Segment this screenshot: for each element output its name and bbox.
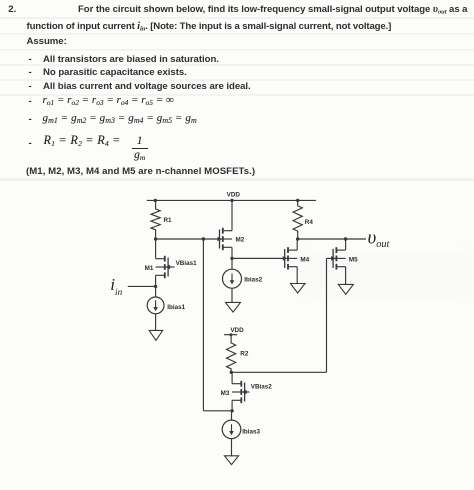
bullet 5: gm equation — [29, 114, 32, 125]
wire R2 node to M5 gate branch — [231, 371, 326, 373]
wire M1 drain up to R1 node — [155, 239, 157, 259]
transistor M4 — [232, 247, 310, 269]
wire M4 drain up to output node — [296, 239, 298, 250]
svg-text:VDD: VDD — [230, 327, 244, 334]
closing note — [26, 166, 255, 177]
wire M3 drain up to R2 node — [231, 372, 233, 383]
svg-text:M3: M3 — [221, 390, 230, 397]
wire to Ibias3 — [231, 411, 233, 420]
wire M2 source down — [231, 247, 233, 258]
svg-text:M2: M2 — [236, 237, 245, 244]
faint scan streaks (decorative) — [0, 17, 474, 19]
transistor M2 — [218, 228, 245, 250]
wire R1 node to M2 gate — [156, 238, 220, 240]
bullet 3 — [29, 81, 32, 92]
problem statement line 2 — [27, 21, 392, 33]
node M3 source / Ibias3 — [230, 409, 233, 412]
wire Ibias3 to ground — [231, 439, 233, 456]
bullet 2 — [29, 67, 32, 78]
transistor M3 — [221, 381, 273, 403]
wire M5 drain up to output node — [345, 239, 347, 250]
svg-text:M4: M4 — [300, 257, 309, 264]
wire M3 source node left to M2-gate branch — [203, 410, 232, 412]
bullet 4: ro equation — [29, 96, 32, 107]
node R2 bottom / M3 drain / M5 gate — [230, 371, 233, 374]
wire VDD rail (top) — [147, 199, 316, 201]
ground under Ibias1 — [149, 330, 163, 340]
wire M1 source down — [155, 275, 157, 286]
problem statement line 1 — [78, 4, 467, 16]
node M2 source / M4 gate / Ibias2 — [230, 257, 233, 260]
current source Ibias3 — [222, 420, 260, 439]
wire M5 gate down to R2 node — [326, 258, 328, 372]
wire Ibias1 to ground — [155, 314, 157, 331]
bullet 6: R equation with fraction — [29, 138, 32, 149]
resistor R4 — [293, 200, 313, 239]
svg-text:R1: R1 — [164, 217, 173, 224]
svg-text:VBias1: VBias1 — [176, 260, 198, 267]
svg-text:R4: R4 — [305, 219, 314, 226]
current source Ibias1 — [147, 297, 185, 314]
transistor M1 — [145, 256, 198, 278]
svg-text:Ibias2: Ibias2 — [244, 277, 262, 284]
resistor R2 — [227, 335, 249, 373]
wire M4 source to ground — [296, 267, 298, 284]
svg-text:M5: M5 — [349, 257, 358, 264]
wire M5 source to ground — [345, 267, 347, 285]
wire M2 source node to M4 gate — [232, 257, 285, 259]
wire output node to v_out — [298, 238, 366, 240]
svg-text:Ibias3: Ibias3 — [242, 428, 260, 435]
junction R1 top on VDD rail — [154, 199, 157, 202]
wire input i_in — [128, 285, 156, 287]
wire lower VDD tick — [224, 334, 237, 336]
junction R2 top on lower VDD — [229, 333, 232, 336]
ground under M4 — [290, 284, 305, 294]
svg-text:VDD: VDD — [227, 192, 241, 199]
svg-text:Ibias1: Ibias1 — [167, 304, 185, 311]
node R4 bottom / M4 drain / output — [296, 237, 299, 240]
junction i_in / M1 source / Ibias1 — [154, 285, 157, 288]
transistor M5 — [327, 247, 359, 269]
wire M2 drain to VDD rail — [231, 200, 233, 230]
junction to M3 source branch — [202, 237, 205, 240]
ground under Ibias3 — [225, 456, 239, 465]
svg-text:VBias2: VBias2 — [251, 383, 273, 390]
wire to Ibias1 — [155, 286, 157, 297]
wire Ibias2 to ground — [231, 288, 233, 302]
svg-text:R2: R2 — [240, 350, 249, 357]
node R1 bottom / M1 drain / M2 gate — [154, 237, 157, 240]
Assume heading — [27, 36, 67, 47]
wire M2-gate node down to M3 source node — [202, 239, 204, 411]
ground under M5 — [338, 284, 353, 294]
ground under Ibias2 — [226, 302, 241, 312]
wire to Ibias2 — [231, 258, 233, 269]
junction M2 drain on VDD rail — [230, 199, 233, 202]
svg-text:M1: M1 — [145, 265, 154, 272]
junction M5 drain on output wire — [344, 237, 347, 240]
problem number — [8, 4, 16, 15]
current source Ibias2 — [223, 269, 263, 288]
bullet 1 — [29, 54, 32, 65]
wire M3 source down — [231, 400, 233, 411]
junction R4 top on VDD rail — [296, 199, 299, 202]
input label i_in — [110, 275, 122, 303]
svg-text:υout: υout — [368, 227, 391, 250]
resistor R1 — [151, 200, 172, 239]
